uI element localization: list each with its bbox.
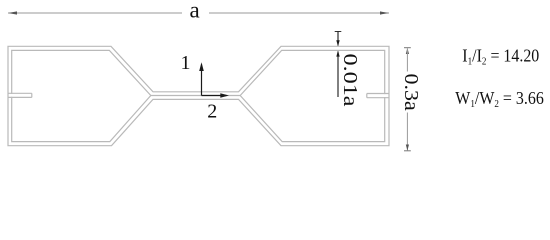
svg-text:a: a [189, 0, 199, 23]
svg-text:1: 1 [181, 52, 191, 74]
section inner boundary left cavity [12, 50, 151, 141]
0.01a upper arrow line [337, 32, 339, 46]
svg-text:0.3a: 0.3a [400, 74, 422, 111]
0.01a lower leader line [337, 52, 339, 98]
axis 2 arrowhead [220, 93, 229, 98]
right slit white gap [367, 94, 388, 97]
0.3a top tick [404, 47, 411, 49]
section inner boundary right cavity [240, 50, 385, 141]
axis 1 line [201, 65, 203, 96]
left slit white gap [9, 94, 31, 97]
svg-text:0.01a: 0.01a [339, 54, 361, 107]
0.01a upper arrowhead (down) [336, 40, 339, 46]
0.3a top arrowhead (up) [406, 48, 409, 54]
0.3a lower line [406, 113, 408, 151]
svg-text:I1/I2 = 14.20: I1/I2 = 14.20 [462, 46, 539, 68]
0.3a bottom arrowhead (down) [406, 145, 409, 151]
axis 1 arrowhead [199, 62, 204, 71]
0.3a upper line [406, 49, 408, 72]
0.3a bottom tick [404, 150, 411, 152]
right slit outline [367, 94, 389, 98]
dimension a left arrowhead [8, 11, 17, 14]
section outer boundary [8, 46, 389, 145]
svg-text:W1/W2 = 3.66: W1/W2 = 3.66 [455, 88, 544, 110]
0.01a lower arrowhead (up) [336, 51, 339, 57]
dimension a line [8, 12, 389, 14]
left slit outline [8, 93, 32, 97]
neck middle line [151, 95, 240, 97]
0.01a top tick [335, 31, 342, 33]
svg-text:2: 2 [207, 101, 217, 123]
axis 2 line [202, 95, 227, 97]
dimension a right arrowhead [380, 11, 389, 14]
